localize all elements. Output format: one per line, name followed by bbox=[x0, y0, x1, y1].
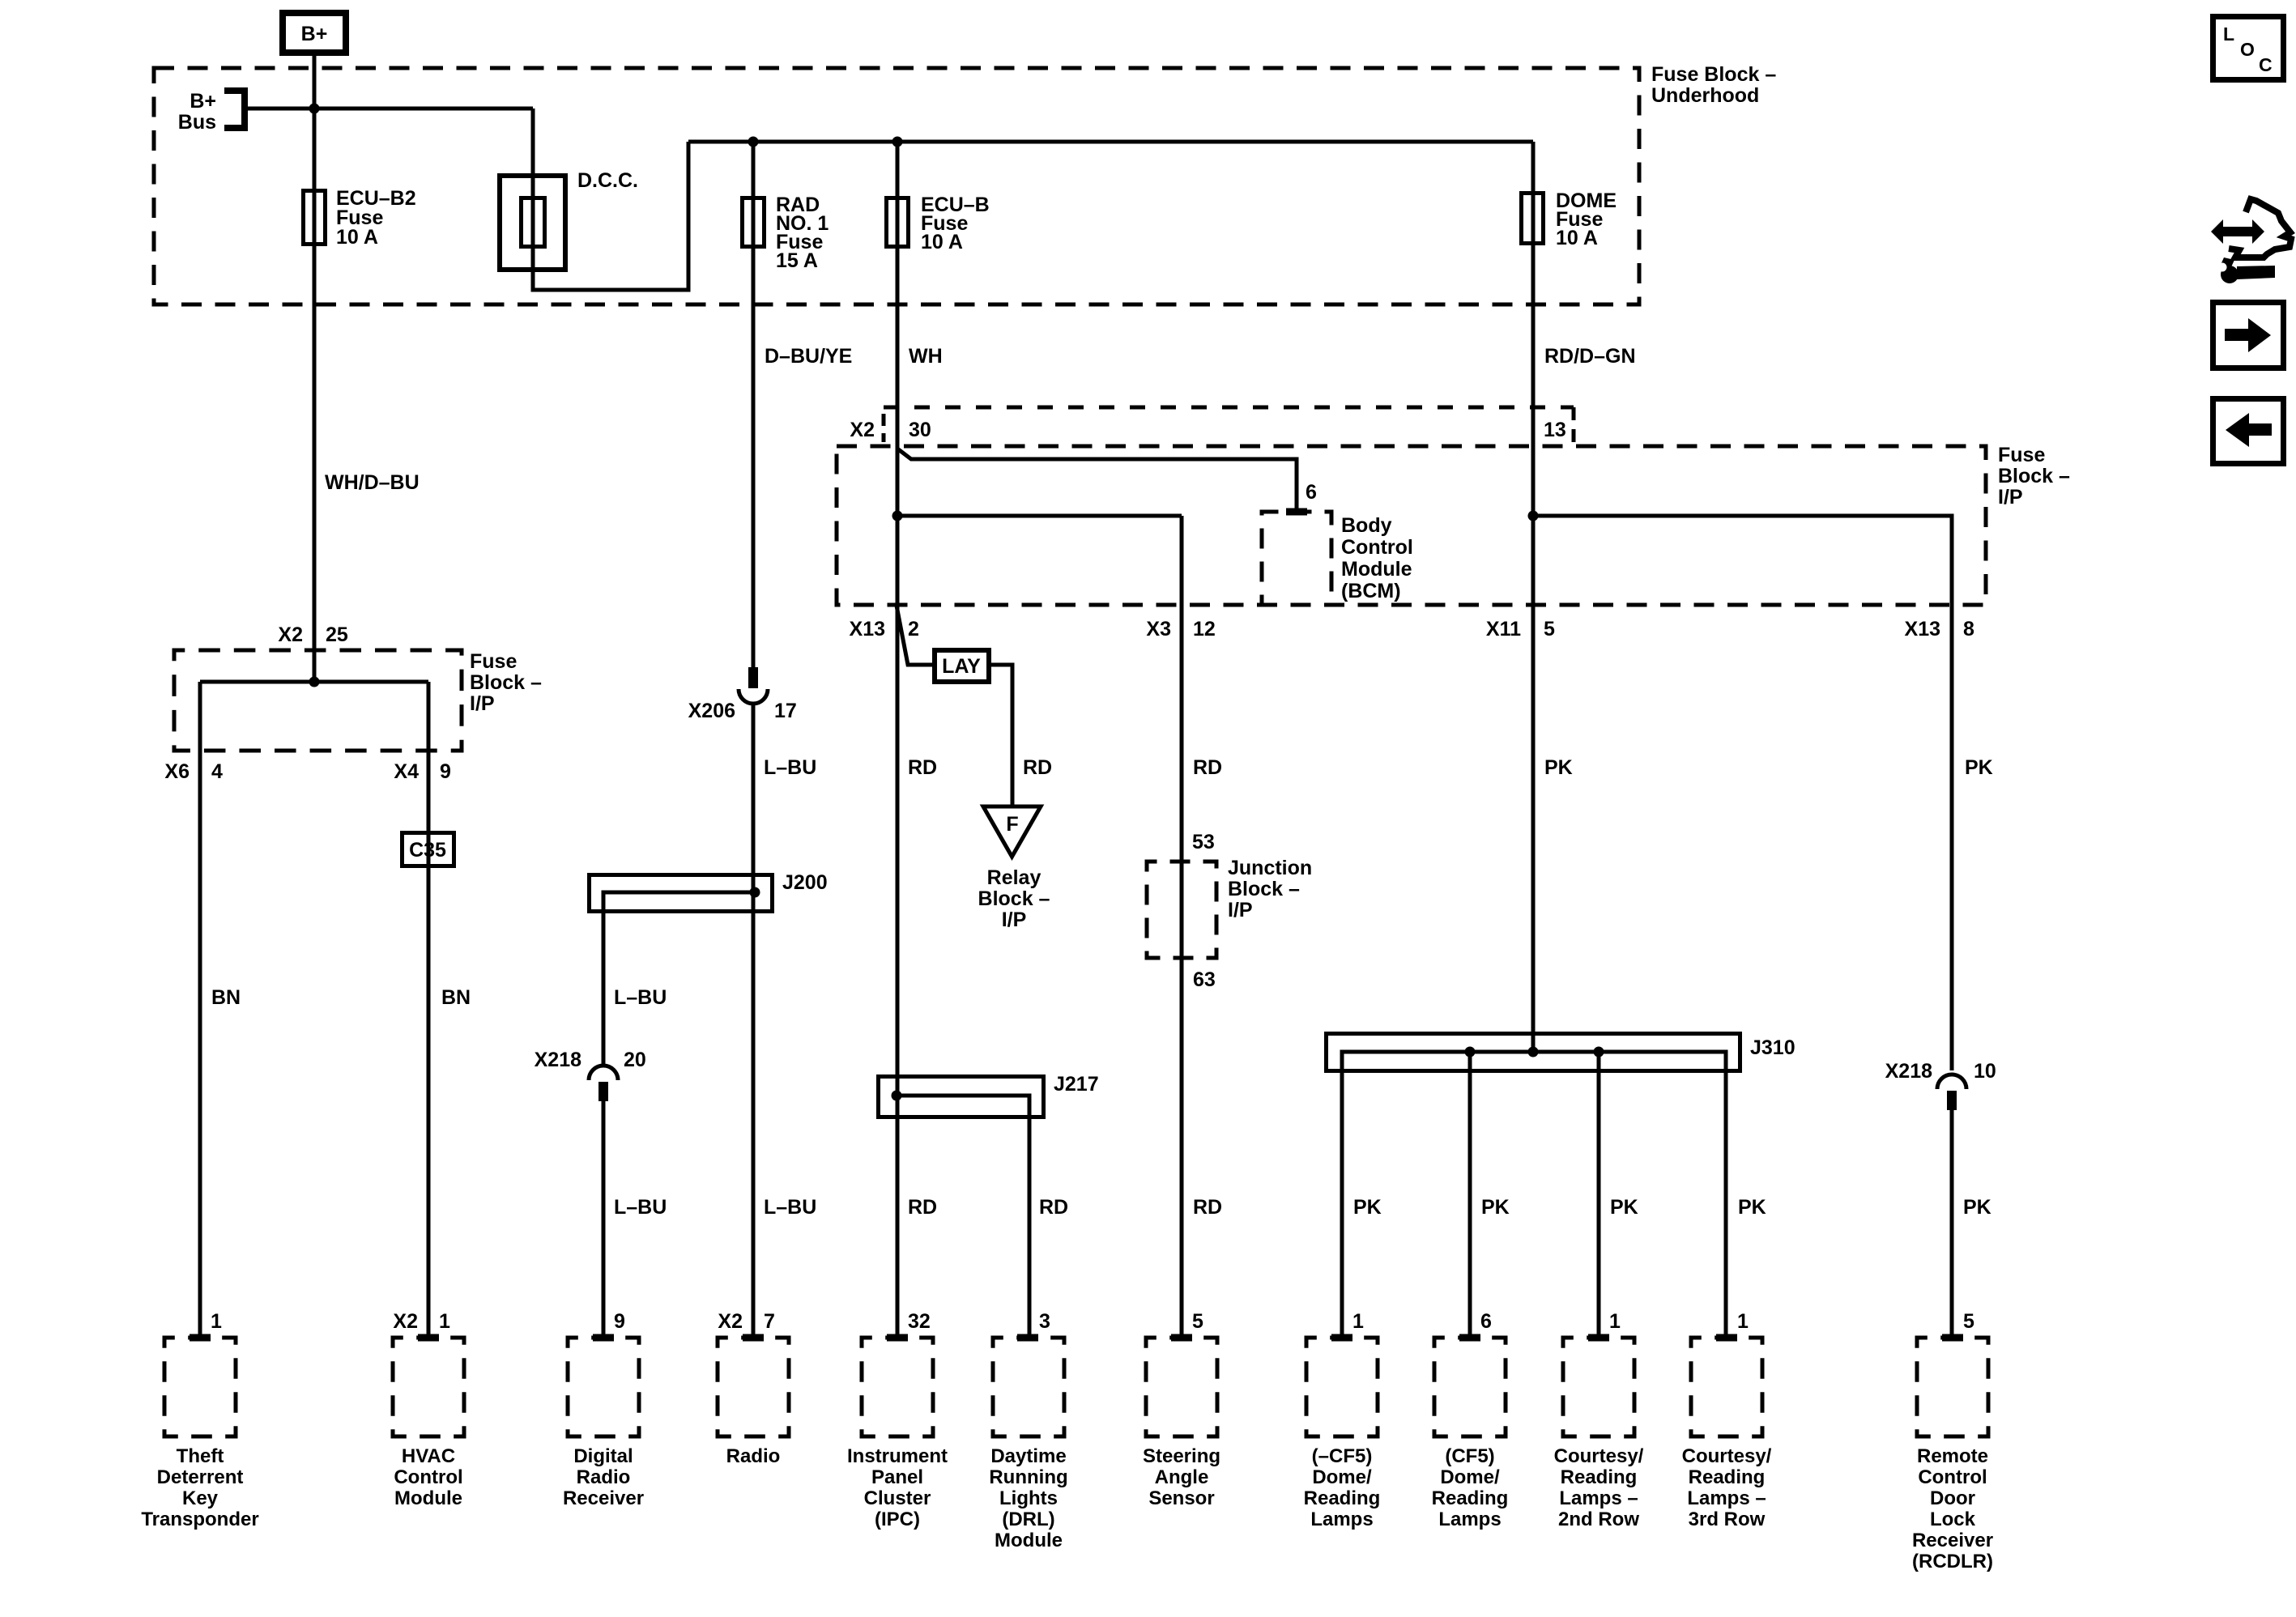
splice LAY box bbox=[935, 650, 989, 682]
svg-text:D.C.C.: D.C.C. bbox=[577, 169, 638, 192]
svg-text:Control: Control bbox=[1918, 1466, 1987, 1488]
svg-text:I/P: I/P bbox=[1002, 908, 1027, 931]
svg-text:J217: J217 bbox=[1054, 1073, 1099, 1096]
connector C35 bbox=[403, 833, 454, 866]
svg-text:X218: X218 bbox=[1885, 1060, 1932, 1083]
svg-text:RD/D–GN: RD/D–GN bbox=[1544, 345, 1636, 368]
junction DOME split bbox=[1528, 511, 1539, 521]
svg-text:6: 6 bbox=[1480, 1310, 1492, 1333]
svg-text:HVAC: HVAC bbox=[402, 1445, 455, 1467]
svg-text:PK: PK bbox=[1963, 1196, 1991, 1219]
svg-text:7: 7 bbox=[764, 1310, 775, 1333]
wire RAD fuse down bbox=[752, 142, 756, 670]
fuse block I/P left dashed box bbox=[174, 650, 462, 751]
connector box instrument panel cluster bbox=[862, 1338, 933, 1436]
svg-text:8: 8 bbox=[1963, 618, 1974, 640]
fuse RAD NO.1 15A bbox=[743, 194, 829, 272]
label digital radio receiver bbox=[563, 1445, 644, 1509]
wire DOME fuse down to J310 bbox=[1531, 142, 1536, 1053]
svg-text:X6: X6 bbox=[164, 760, 190, 783]
svg-text:Radio: Radio bbox=[577, 1466, 631, 1488]
svg-text:(–CF5): (–CF5) bbox=[1312, 1445, 1373, 1467]
svg-text:L–BU: L–BU bbox=[614, 1196, 667, 1219]
svg-text:X2: X2 bbox=[850, 419, 875, 441]
svg-text:PK: PK bbox=[1610, 1196, 1638, 1219]
connector strip right tick bbox=[1572, 407, 1576, 442]
B+ Bus tap bracket bbox=[224, 91, 245, 128]
junction B+ bus / ECU-B2 feed bbox=[309, 104, 320, 114]
wire X218 to digital radio receiver bbox=[602, 1101, 606, 1339]
svg-text:Transponder: Transponder bbox=[141, 1508, 258, 1530]
svg-text:F: F bbox=[1006, 813, 1018, 836]
connector X206 17 male pin bbox=[748, 667, 758, 688]
svg-text:LAY: LAY bbox=[942, 655, 981, 678]
connector box dome reading lamps bbox=[1306, 1338, 1378, 1436]
wire theft branch bbox=[198, 682, 202, 1339]
svg-text:Instrument: Instrument bbox=[847, 1445, 948, 1467]
svg-text:Daytime: Daytime bbox=[990, 1445, 1066, 1467]
svg-text:5: 5 bbox=[1192, 1310, 1203, 1333]
svg-text:1: 1 bbox=[1352, 1310, 1364, 1333]
svg-text:RD: RD bbox=[908, 1196, 937, 1219]
svg-text:Junction: Junction bbox=[1228, 857, 1312, 879]
svg-text:Remote: Remote bbox=[1917, 1445, 1988, 1467]
svg-text:63: 63 bbox=[1193, 968, 1216, 991]
svg-text:X206: X206 bbox=[688, 700, 735, 722]
connector box theft deterrent key transponder bbox=[164, 1338, 236, 1436]
svg-text:Panel: Panel bbox=[871, 1466, 923, 1488]
wire X206 to J200 bbox=[752, 703, 756, 1339]
icon arrow left box bbox=[2213, 399, 2284, 464]
svg-text:Receiver: Receiver bbox=[563, 1487, 644, 1509]
svg-text:Control: Control bbox=[1341, 536, 1413, 559]
junction bus / ECU-B bbox=[892, 137, 903, 147]
connector box HVAC control module bbox=[393, 1338, 464, 1436]
svg-text:15 A: 15 A bbox=[776, 249, 818, 272]
svg-text:2: 2 bbox=[908, 618, 919, 640]
svg-text:25: 25 bbox=[326, 623, 348, 646]
connector X206 17 socket bbox=[739, 689, 768, 704]
svg-text:Angle: Angle bbox=[1155, 1466, 1209, 1488]
label courtesy reading lamps 3rd row bbox=[1682, 1445, 1772, 1530]
B+ power symbol bbox=[283, 13, 346, 53]
svg-text:12: 12 bbox=[1193, 618, 1216, 640]
icon arrow right box bbox=[2213, 303, 2284, 368]
label steering angle sensor bbox=[1143, 1445, 1220, 1509]
connector box rcdlr bbox=[1917, 1338, 1988, 1436]
svg-text:3rd Row: 3rd Row bbox=[1689, 1508, 1766, 1530]
svg-text:X4: X4 bbox=[394, 760, 419, 783]
wire 2nd row lamp branch bbox=[1597, 1052, 1601, 1339]
BCM pin 6 terminal bar bbox=[1286, 509, 1307, 516]
junction WH split bbox=[892, 511, 903, 521]
svg-text:X13: X13 bbox=[850, 618, 885, 640]
svg-text:(BCM): (BCM) bbox=[1341, 580, 1401, 602]
svg-text:RD: RD bbox=[1193, 756, 1222, 779]
svg-text:RD: RD bbox=[908, 756, 937, 779]
svg-text:Reading: Reading bbox=[1561, 1466, 1638, 1488]
label dome reading lamps minus cf5 bbox=[1304, 1445, 1381, 1530]
svg-text:5: 5 bbox=[1963, 1310, 1974, 1333]
wire D.C.C. loop bbox=[533, 109, 688, 290]
svg-text:B+: B+ bbox=[301, 23, 328, 45]
svg-text:5: 5 bbox=[1544, 618, 1555, 640]
svg-text:1: 1 bbox=[439, 1310, 450, 1333]
svg-text:9: 9 bbox=[614, 1310, 625, 1333]
svg-text:(RCDLR): (RCDLR) bbox=[1912, 1551, 1993, 1572]
label courtesy reading lamps 2nd row bbox=[1554, 1445, 1644, 1530]
label theft deterrent key transponder bbox=[141, 1445, 258, 1530]
svg-text:Module: Module bbox=[1341, 558, 1412, 581]
svg-text:I/P: I/P bbox=[1998, 486, 2023, 509]
svg-text:Courtesy/: Courtesy/ bbox=[1682, 1445, 1772, 1467]
svg-text:Reading: Reading bbox=[1432, 1487, 1509, 1509]
fuse ECU-B2 10A bbox=[304, 187, 416, 249]
connector X218 10 male pin bbox=[1947, 1091, 1957, 1110]
wire HVAC branch bbox=[427, 682, 431, 1339]
wire X218 to RCDLR bbox=[1950, 1110, 1954, 1339]
svg-text:B+: B+ bbox=[190, 90, 216, 113]
svg-text:6: 6 bbox=[1306, 481, 1317, 504]
svg-text:PK: PK bbox=[1738, 1196, 1766, 1219]
svg-text:PK: PK bbox=[1353, 1196, 1382, 1219]
svg-text:(IPC): (IPC) bbox=[875, 1508, 920, 1530]
wire CF5 lamp branch bbox=[1468, 1052, 1472, 1339]
svg-text:Dome/: Dome/ bbox=[1440, 1466, 1500, 1488]
svg-text:(CF5): (CF5) bbox=[1445, 1445, 1494, 1467]
svg-text:Door: Door bbox=[1930, 1487, 1975, 1509]
splice J217 bbox=[879, 1073, 1099, 1339]
fuse ECU-B 10A bbox=[887, 194, 990, 253]
svg-text:Running: Running bbox=[989, 1466, 1067, 1488]
svg-text:Block –: Block – bbox=[1998, 465, 2070, 487]
wire underhood bus to DOME bbox=[688, 140, 1533, 144]
svg-text:C: C bbox=[2259, 54, 2273, 75]
svg-text:X2: X2 bbox=[718, 1310, 743, 1333]
connector box courtesy lamps 2nd row bbox=[1563, 1338, 1634, 1436]
svg-text:O: O bbox=[2240, 39, 2255, 60]
svg-text:Deterrent: Deterrent bbox=[157, 1466, 244, 1488]
svg-text:Control: Control bbox=[394, 1466, 462, 1488]
svg-text:X3: X3 bbox=[1146, 618, 1171, 640]
svg-text:L–BU: L–BU bbox=[764, 756, 816, 779]
fuse DOME 10A bbox=[1522, 189, 1617, 249]
label instrument panel cluster bbox=[847, 1445, 948, 1530]
svg-text:C35: C35 bbox=[409, 839, 446, 862]
svg-text:17: 17 bbox=[774, 700, 797, 722]
svg-text:Body: Body bbox=[1341, 514, 1392, 537]
connector box radio bbox=[718, 1338, 789, 1436]
svg-text:X13: X13 bbox=[1905, 618, 1940, 640]
splice J310 bbox=[1327, 1034, 1795, 1340]
svg-text:13: 13 bbox=[1544, 419, 1566, 441]
svg-text:X11: X11 bbox=[1486, 618, 1521, 640]
svg-text:4: 4 bbox=[211, 760, 223, 783]
wire split bus bbox=[200, 680, 428, 684]
wire B+ bus to D.C.C. drop bbox=[245, 107, 533, 111]
wire ECU-B fuse down bbox=[896, 142, 900, 1339]
junction bus / RAD NO.1 bbox=[748, 137, 759, 147]
connector strip dotted line bbox=[884, 406, 1574, 410]
svg-text:Cluster: Cluster bbox=[864, 1487, 931, 1509]
icon vehicle repair bbox=[2211, 199, 2291, 283]
svg-text:1: 1 bbox=[211, 1310, 222, 1333]
svg-text:WH/D–BU: WH/D–BU bbox=[325, 471, 420, 494]
wire B+ feed down bbox=[313, 53, 317, 682]
svg-text:PK: PK bbox=[1965, 756, 1993, 779]
svg-text:10 A: 10 A bbox=[336, 226, 378, 249]
fuse block I/P dashed box bbox=[837, 446, 1986, 605]
svg-text:X218: X218 bbox=[535, 1049, 581, 1071]
svg-text:Block –: Block – bbox=[978, 887, 1050, 910]
svg-text:10: 10 bbox=[1974, 1060, 1996, 1083]
svg-text:BN: BN bbox=[211, 986, 241, 1009]
body control module dashed box bbox=[1262, 512, 1331, 605]
svg-text:20: 20 bbox=[624, 1049, 646, 1071]
svg-text:Block –: Block – bbox=[470, 671, 542, 694]
svg-text:2nd Row: 2nd Row bbox=[1558, 1508, 1639, 1530]
svg-text:D–BU/YE: D–BU/YE bbox=[765, 345, 852, 368]
fuse symbol F relay block bbox=[983, 806, 1041, 857]
svg-text:Courtesy/: Courtesy/ bbox=[1554, 1445, 1644, 1467]
connector box courtesy lamps 3rd row bbox=[1691, 1338, 1762, 1436]
connector box DRL module bbox=[993, 1338, 1064, 1436]
svg-text:Underhood: Underhood bbox=[1651, 84, 1759, 107]
svg-text:Key: Key bbox=[182, 1487, 219, 1509]
label rcdlr bbox=[1912, 1445, 1993, 1572]
svg-text:RD: RD bbox=[1023, 756, 1052, 779]
svg-text:Module: Module bbox=[394, 1487, 462, 1509]
connector box digital radio receiver bbox=[568, 1338, 639, 1436]
svg-text:Reading: Reading bbox=[1304, 1487, 1381, 1509]
svg-text:Radio: Radio bbox=[726, 1445, 781, 1467]
label dome reading lamps cf5 bbox=[1432, 1445, 1509, 1530]
svg-text:Sensor: Sensor bbox=[1148, 1487, 1214, 1509]
svg-text:RD: RD bbox=[1039, 1196, 1068, 1219]
svg-text:Lamps –: Lamps – bbox=[1559, 1487, 1638, 1509]
svg-text:J310: J310 bbox=[1750, 1036, 1795, 1059]
svg-text:Receiver: Receiver bbox=[1912, 1530, 1993, 1551]
svg-text:Block –: Block – bbox=[1228, 878, 1300, 900]
svg-text:30: 30 bbox=[909, 419, 931, 441]
fuse block underhood dashed box bbox=[154, 68, 1639, 304]
label hvac control module bbox=[394, 1445, 462, 1509]
splice J200 bbox=[590, 871, 828, 1067]
svg-text:10 A: 10 A bbox=[921, 231, 963, 253]
svg-text:Reading: Reading bbox=[1689, 1466, 1766, 1488]
svg-text:Dome/: Dome/ bbox=[1312, 1466, 1372, 1488]
wire BCM riser bbox=[897, 449, 1297, 513]
svg-text:Lamps: Lamps bbox=[1310, 1508, 1373, 1530]
svg-text:PK: PK bbox=[1544, 756, 1573, 779]
wire WH to X3 bbox=[897, 514, 1182, 518]
svg-text:1: 1 bbox=[1737, 1310, 1749, 1333]
svg-text:X2: X2 bbox=[393, 1310, 418, 1333]
svg-text:Bus: Bus bbox=[178, 111, 216, 134]
svg-text:Relay: Relay bbox=[987, 866, 1042, 889]
svg-text:RD: RD bbox=[1193, 1196, 1222, 1219]
svg-text:I/P: I/P bbox=[470, 692, 495, 715]
svg-text:Lamps –: Lamps – bbox=[1687, 1487, 1766, 1509]
svg-text:Digital: Digital bbox=[573, 1445, 633, 1467]
connector box steering angle sensor bbox=[1146, 1338, 1217, 1436]
svg-text:J200: J200 bbox=[782, 871, 828, 894]
label daytime running lights module bbox=[989, 1445, 1067, 1551]
connector X218 20 male pin bbox=[598, 1082, 608, 1101]
svg-text:1: 1 bbox=[1609, 1310, 1621, 1333]
svg-text:3: 3 bbox=[1039, 1310, 1050, 1333]
connector box dome reading lamps cf5 bbox=[1434, 1338, 1506, 1436]
svg-text:Fuse Block –: Fuse Block – bbox=[1651, 63, 1776, 86]
svg-text:Theft: Theft bbox=[177, 1445, 224, 1467]
svg-text:Module: Module bbox=[995, 1530, 1063, 1551]
D.C.C. box bbox=[500, 169, 638, 270]
wire DOME to X13-8 bbox=[1533, 516, 1952, 1070]
svg-text:32: 32 bbox=[908, 1310, 931, 1333]
svg-text:L–BU: L–BU bbox=[764, 1196, 816, 1219]
svg-text:BN: BN bbox=[441, 986, 471, 1009]
svg-text:PK: PK bbox=[1481, 1196, 1510, 1219]
svg-text:Lock: Lock bbox=[1930, 1508, 1976, 1530]
wire LAY to fuse F bbox=[991, 665, 1012, 808]
connector X218 10 socket bbox=[1937, 1074, 1966, 1089]
svg-text:I/P: I/P bbox=[1228, 899, 1253, 921]
svg-text:Steering: Steering bbox=[1143, 1445, 1220, 1467]
svg-text:9: 9 bbox=[440, 760, 451, 783]
svg-text:53: 53 bbox=[1192, 831, 1215, 853]
svg-text:Fuse: Fuse bbox=[470, 650, 517, 673]
junction block I/P dashed box bbox=[1147, 862, 1216, 958]
connector X218 20 socket bbox=[589, 1066, 618, 1080]
svg-text:L: L bbox=[2223, 23, 2234, 45]
svg-text:10 A: 10 A bbox=[1556, 227, 1598, 249]
connector strip left tick bbox=[882, 414, 886, 442]
svg-text:Lights: Lights bbox=[999, 1487, 1058, 1509]
svg-text:WH: WH bbox=[909, 345, 943, 368]
icon LOC box bbox=[2213, 17, 2284, 80]
svg-text:Fuse: Fuse bbox=[1998, 444, 2045, 466]
svg-text:X2: X2 bbox=[278, 623, 303, 646]
wire X3 branch down bbox=[1180, 516, 1184, 1339]
junction X2-25 split bbox=[309, 677, 320, 687]
svg-text:Lamps: Lamps bbox=[1438, 1508, 1501, 1530]
svg-text:(DRL): (DRL) bbox=[1002, 1508, 1054, 1530]
wire X13-2 to LAY splice bbox=[897, 606, 932, 665]
svg-text:L–BU: L–BU bbox=[614, 986, 667, 1009]
